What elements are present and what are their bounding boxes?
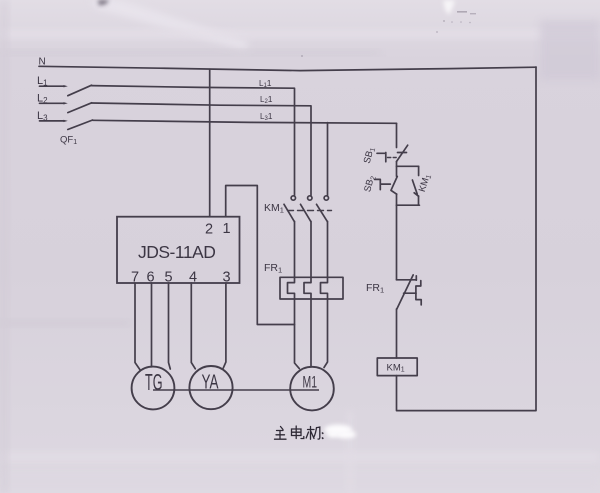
svg-text:6: 6 <box>147 270 155 286</box>
wire FR1 to M1 lead c <box>324 299 328 368</box>
solenoid YA <box>189 366 232 409</box>
breaker stub arrowheads <box>64 85 68 122</box>
contact KM1 aux <box>418 166 420 175</box>
breaker QF1 pole L2 blade <box>68 103 92 113</box>
wire pin5 to TG <box>169 283 171 369</box>
phase L3 stub <box>40 120 64 122</box>
branch bottom wire <box>397 204 420 206</box>
branch top wire <box>397 165 419 167</box>
wire pin4 to YA <box>191 283 195 369</box>
shaft coupling line <box>153 389 319 391</box>
svg-text:M1: M1 <box>303 373 318 392</box>
wire L2 to KM1 contact <box>92 103 311 195</box>
phase L1 stub <box>40 85 64 87</box>
svg-text:JDS-11AD: JDS-11AD <box>138 242 215 262</box>
wire FR1 to M1 lead b <box>310 299 312 367</box>
whiteout smudge after caption <box>324 425 356 439</box>
wire pin3 to YA <box>223 283 226 368</box>
coil KM1 box <box>377 358 417 376</box>
breaker QF1 pole L3 blade <box>68 120 93 130</box>
bus N <box>39 66 536 70</box>
wire L3 to KM1 contact <box>327 123 329 196</box>
generator TG <box>132 367 175 410</box>
module JDS-11AD box <box>117 217 240 283</box>
wire pin6 to TG <box>151 283 153 367</box>
svg-text:N: N <box>39 57 46 68</box>
wire coil to N return <box>397 67 537 411</box>
contactor KM1 main contacts <box>284 196 332 277</box>
breaker QF1 pole L1 blade <box>68 85 92 96</box>
motor M1 <box>290 367 334 411</box>
stop button SB1 <box>398 152 407 154</box>
wire pin1 jog to M1 lead <box>226 186 295 325</box>
svg-text:TG: TG <box>145 369 163 395</box>
thermal contact FR1 <box>397 279 417 281</box>
wire branch to FR1 contact <box>396 205 398 280</box>
svg-text:2: 2 <box>205 222 213 238</box>
caption 主电机: (drawn strokes) <box>275 426 323 439</box>
svg-text:4: 4 <box>189 270 197 286</box>
start button SB2 <box>391 176 397 190</box>
svg-text:1: 1 <box>223 221 231 237</box>
thermal relay FR1 heaters <box>280 277 343 299</box>
wire L3 tap to SB1 <box>396 123 398 147</box>
wire N to pin 2 <box>209 69 211 217</box>
wire SB1 to branch <box>396 162 398 177</box>
wire FR1 to M1 lead a <box>295 299 300 369</box>
wire L3 <box>93 120 397 123</box>
wire FR1 contact to coil <box>396 309 398 358</box>
wire pin7 to TG <box>135 283 141 371</box>
phase L2 stub <box>40 102 64 104</box>
wire L1 to KM1 contact <box>92 86 295 196</box>
whiteout blob top right <box>443 0 455 15</box>
